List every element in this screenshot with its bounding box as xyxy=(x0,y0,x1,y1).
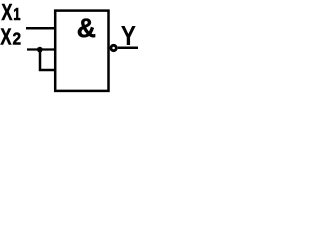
junction dot on X2 xyxy=(37,47,43,53)
wire input X2 xyxy=(27,48,55,50)
inversion bubble xyxy=(111,45,116,50)
wire output Y xyxy=(118,47,138,50)
svg-text:Y: Y xyxy=(121,21,136,51)
svg-text:X: X xyxy=(0,25,11,50)
wire feedback step xyxy=(40,51,55,70)
svg-text:2: 2 xyxy=(13,29,22,48)
svg-text:1: 1 xyxy=(13,5,21,24)
svg-text:&: & xyxy=(77,13,96,43)
wire input X1 xyxy=(26,27,55,30)
svg-text:X: X xyxy=(1,1,12,26)
and-gate U1 box xyxy=(55,11,108,91)
